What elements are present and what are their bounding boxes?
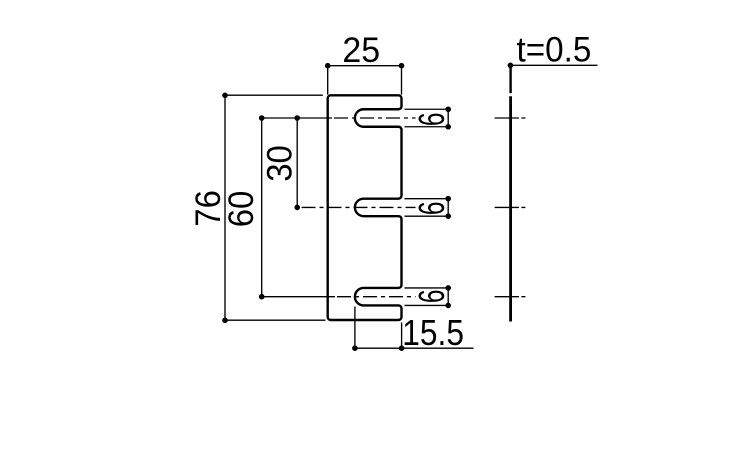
- svg-text:6: 6: [411, 112, 452, 126]
- side view centerline mark slot 3: [495, 296, 526, 298]
- leader and label t=0.5 (sheet thickness): [508, 31, 598, 70]
- side view sheet edge (thick line): [509, 67, 511, 322]
- dimension 60 (slot1 to slot3 centers): [222, 115, 265, 299]
- part outline (25x76 plate with three U-slots): [328, 95, 402, 320]
- centerline slot 3: [262, 296, 415, 298]
- svg-text:60: 60: [222, 191, 261, 228]
- svg-text:6: 6: [411, 289, 452, 303]
- dimension 25 (top width): [325, 32, 404, 95]
- dimension 6 slot 3: [405, 285, 453, 308]
- svg-text:15.5: 15.5: [402, 313, 464, 353]
- svg-text:t=0.5: t=0.5: [517, 31, 592, 70]
- dimension 6 slot 1: [405, 106, 453, 129]
- svg-text:30: 30: [261, 145, 300, 182]
- dimension 30 (slot1 to slot2 centers): [261, 115, 300, 210]
- side view centerline mark slot 1: [495, 117, 526, 119]
- dimension 6 slot 2: [405, 196, 453, 219]
- side view centerline mark slot 2: [495, 206, 526, 208]
- svg-text:6: 6: [411, 201, 452, 215]
- svg-text:25: 25: [342, 32, 380, 71]
- centerline slot 1: [261, 117, 415, 119]
- dimension 76 (overall height): [189, 93, 326, 324]
- dimension 15.5 (slot depth): [352, 307, 473, 354]
- centerline slot 2: [302, 206, 416, 208]
